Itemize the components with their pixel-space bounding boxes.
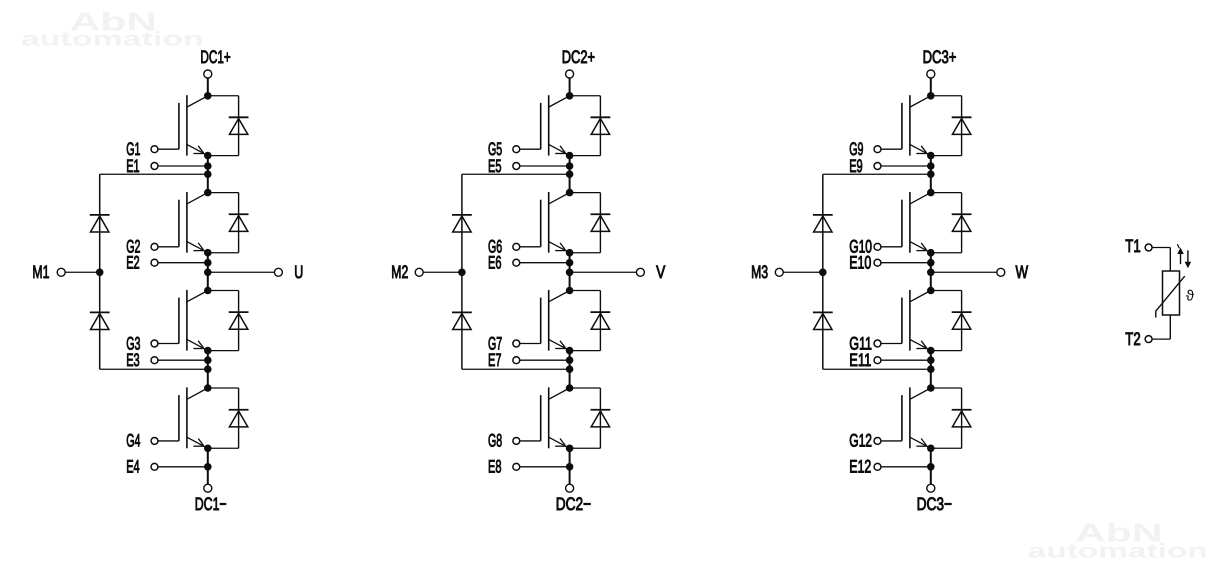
svg-text:M1: M1 <box>32 262 49 282</box>
IGBT Q11 (G11) <box>902 290 931 351</box>
wire gate G8 <box>520 440 541 442</box>
svg-text:DC2−: DC2− <box>556 494 591 514</box>
thermistor characteristic arrows (up/down) <box>1177 244 1191 268</box>
svg-text:automation: automation <box>21 28 204 50</box>
gate terminal G11 <box>849 333 881 353</box>
output terminal V <box>636 262 665 282</box>
node Q3 collector junction <box>204 287 212 295</box>
wire gate G6 <box>520 246 541 248</box>
emitter terminal E6 <box>488 253 520 273</box>
freewheel diode D8 <box>570 388 611 448</box>
svg-text:ϑ: ϑ <box>1186 287 1195 304</box>
node Q8 collector junction <box>566 384 574 392</box>
wire clamp lower row leg 3 <box>823 368 931 370</box>
wire node column segment bottom leg 1 <box>207 448 209 484</box>
wire gate G2 <box>158 246 179 248</box>
freewheel diode D4 <box>208 388 249 448</box>
thermistor temperature symbol &#977; <box>1186 287 1195 304</box>
gate terminal G2 <box>126 237 158 257</box>
freewheel diode D6 <box>570 193 611 253</box>
svg-text:G8: G8 <box>488 431 502 451</box>
emitter terminal E4 <box>126 457 158 477</box>
node E5 junction <box>566 162 574 170</box>
svg-text:E8: E8 <box>488 457 502 477</box>
svg-text:automation: automation <box>1028 541 1208 563</box>
svg-text:DC3+: DC3+ <box>923 47 957 67</box>
gate terminal G6 <box>488 237 520 257</box>
node Q10 collector junction <box>927 189 935 197</box>
svg-text:E11: E11 <box>849 350 871 370</box>
wire E2 to node column <box>158 262 208 264</box>
wire clamp column leg 3 <box>822 174 824 369</box>
node M1 clamp junction <box>96 269 104 277</box>
node Q9 collector junction <box>927 92 935 100</box>
terminal T1 <box>1125 236 1152 256</box>
freewheel diode D9 <box>931 96 972 156</box>
wire node to output U <box>208 271 275 273</box>
emitter terminal E3 <box>126 350 158 370</box>
wire T1 to thermistor <box>1152 248 1170 272</box>
gate terminal G1 <box>126 139 158 159</box>
wire E5 to node column <box>520 165 570 167</box>
node E4 junction <box>204 463 212 471</box>
IGBT Q4 (G4) <box>179 387 208 448</box>
wire gate G10 <box>881 246 902 248</box>
gate terminal G7 <box>488 333 520 353</box>
node clamp lower junction leg 1 <box>204 365 212 373</box>
wire node column segment bottom leg 2 <box>569 448 571 484</box>
thermistor RT1 (NTC) body <box>1156 271 1185 318</box>
svg-text:DC3−: DC3− <box>917 494 952 514</box>
node E8 junction <box>566 463 574 471</box>
svg-text:E5: E5 <box>488 156 502 176</box>
node clamp upper junction leg 3 <box>927 170 935 178</box>
svg-text:E7: E7 <box>488 350 502 370</box>
svg-text:M2: M2 <box>391 262 408 282</box>
terminal M1 <box>32 262 65 282</box>
node E6 junction <box>566 259 574 267</box>
wire M2 to clamp column <box>423 271 462 273</box>
IGBT Q9 (G9) <box>902 95 931 155</box>
svg-text:W: W <box>1016 262 1029 282</box>
emitter terminal E10 <box>849 253 881 273</box>
node E1 junction <box>204 162 212 170</box>
wire node column segment E1-area leg 1 <box>207 156 209 193</box>
wire E8 to node column <box>520 466 570 468</box>
IGBT Q8 (G8) <box>541 387 570 448</box>
output terminal U <box>274 262 303 282</box>
node Q3 emitter junction <box>204 347 212 355</box>
freewheel diode D2 <box>208 193 249 253</box>
gate terminal G10 <box>849 237 881 257</box>
node Q10 emitter junction <box>927 249 935 257</box>
svg-text:E6: E6 <box>488 253 502 273</box>
svg-text:T1: T1 <box>1125 236 1140 256</box>
node clamp lower junction leg 3 <box>927 365 935 373</box>
terminal DC3&#8722; <box>917 484 952 514</box>
wire node column segment mid-area leg 2 <box>569 253 571 291</box>
IGBT Q1 (G1) <box>179 95 208 155</box>
node Q4 emitter junction <box>204 445 212 453</box>
wire node column segment E9-area leg 3 <box>930 156 932 193</box>
wire DC3+ to Q9 collector <box>930 78 932 96</box>
wire E6 to node column <box>520 262 570 264</box>
node Q2 emitter junction <box>204 249 212 257</box>
node Q11 collector junction <box>927 287 935 295</box>
emitter terminal E9 <box>849 156 881 176</box>
wire clamp lower row leg 2 <box>462 368 570 370</box>
node output junction W <box>927 269 935 277</box>
wire E12 to node column <box>881 466 931 468</box>
clamp diode lower leg 3 <box>813 312 833 329</box>
wire M3 to clamp column <box>783 271 823 273</box>
clamp diode lower leg 1 <box>90 312 110 329</box>
wire thermistor to T2 <box>1152 315 1170 339</box>
svg-text:DC1−: DC1− <box>195 494 227 514</box>
wire gate G3 <box>158 343 179 345</box>
clamp diode upper leg 3 <box>813 215 833 232</box>
wire clamp lower row leg 1 <box>100 368 208 370</box>
node Q11 emitter junction <box>927 347 935 355</box>
emitter terminal E11 <box>849 350 881 370</box>
wire E10 to node column <box>881 262 931 264</box>
gate terminal G9 <box>849 139 881 159</box>
terminal T2 <box>1125 329 1152 349</box>
node E9 junction <box>927 162 935 170</box>
svg-text:DC1+: DC1+ <box>200 47 230 67</box>
node Q9 emitter junction <box>927 152 935 160</box>
svg-text:V: V <box>656 262 665 282</box>
IGBT Q7 (G7) <box>541 290 570 351</box>
IGBT Q12 (G12) <box>902 387 931 448</box>
wire clamp upper row leg 3 <box>823 173 931 175</box>
terminal DC1&#8722; <box>195 484 227 514</box>
IGBT Q2 (G2) <box>179 192 208 253</box>
node E12 junction <box>927 463 935 471</box>
node Q1 collector junction <box>204 92 212 100</box>
wire clamp column leg 2 <box>461 174 463 369</box>
wire gate G5 <box>520 148 541 150</box>
svg-text:E12: E12 <box>849 457 871 477</box>
terminal M2 <box>391 262 423 282</box>
terminal DC2+ <box>562 47 595 78</box>
node Q2 collector junction <box>204 189 212 197</box>
gate terminal G8 <box>488 431 520 451</box>
svg-text:E1: E1 <box>126 156 140 176</box>
wire node column segment E3-area leg 1 <box>207 351 209 388</box>
node Q12 emitter junction <box>927 445 935 453</box>
wire clamp upper row leg 2 <box>462 173 570 175</box>
node Q4 collector junction <box>204 384 212 392</box>
node E3 junction <box>204 356 212 364</box>
clamp diode upper leg 2 <box>452 215 472 232</box>
wire E7 to node column <box>520 359 570 361</box>
node M3 clamp junction <box>819 269 827 277</box>
freewheel diode D12 <box>931 388 972 448</box>
svg-text:E4: E4 <box>126 457 140 477</box>
wire node column segment bottom leg 3 <box>930 448 932 484</box>
wire clamp column leg 1 <box>99 174 101 369</box>
svg-text:U: U <box>294 262 303 282</box>
node clamp lower junction leg 2 <box>566 365 574 373</box>
node Q7 collector junction <box>566 287 574 295</box>
node E10 junction <box>927 259 935 267</box>
node Q6 collector junction <box>566 189 574 197</box>
svg-text:E2: E2 <box>126 253 140 273</box>
clamp diode upper leg 1 <box>90 215 110 232</box>
node E2 junction <box>204 259 212 267</box>
emitter terminal E1 <box>126 156 158 176</box>
gate terminal G3 <box>126 333 158 353</box>
wire gate G4 <box>158 440 179 442</box>
emitter terminal E7 <box>488 350 520 370</box>
wire node to output W <box>931 271 997 273</box>
svg-text:DC2+: DC2+ <box>562 47 595 67</box>
node output junction U <box>204 269 212 277</box>
emitter terminal E12 <box>849 457 881 477</box>
wire node column segment mid-area leg 3 <box>930 253 932 291</box>
wire node column segment E11-area leg 3 <box>930 351 932 388</box>
wire node column segment E7-area leg 2 <box>569 351 571 388</box>
IGBT Q5 (G5) <box>541 95 570 155</box>
IGBT Q10 (G10) <box>902 192 931 253</box>
node clamp upper junction leg 2 <box>566 170 574 178</box>
node Q8 emitter junction <box>566 445 574 453</box>
node Q7 emitter junction <box>566 347 574 355</box>
watermark top-left "AbN automation" <box>21 6 204 50</box>
wire gate G1 <box>158 148 179 150</box>
freewheel diode D5 <box>570 96 611 156</box>
gate terminal G5 <box>488 139 520 159</box>
terminal M3 <box>751 262 783 282</box>
svg-text:T2: T2 <box>1125 329 1140 349</box>
node clamp upper junction leg 1 <box>204 170 212 178</box>
wire gate G9 <box>881 148 902 150</box>
svg-text:E9: E9 <box>849 156 863 176</box>
emitter terminal E2 <box>126 253 158 273</box>
output terminal W <box>997 262 1028 282</box>
svg-text:G12: G12 <box>849 431 872 451</box>
wire gate G7 <box>520 343 541 345</box>
wire node column segment mid-area leg 1 <box>207 253 209 291</box>
wire M1 to clamp column <box>65 271 100 273</box>
node output junction V <box>566 269 574 277</box>
clamp diode lower leg 2 <box>452 312 472 329</box>
svg-text:M3: M3 <box>751 262 768 282</box>
node Q1 emitter junction <box>204 152 212 160</box>
terminal DC3+ <box>923 47 957 78</box>
wire E4 to node column <box>158 466 208 468</box>
wire E1 to node column <box>158 165 208 167</box>
gate terminal G4 <box>126 431 158 451</box>
freewheel diode D1 <box>208 96 249 156</box>
emitter terminal E8 <box>488 457 520 477</box>
freewheel diode D3 <box>208 291 249 351</box>
freewheel diode D10 <box>931 193 972 253</box>
watermark bottom-right "AbN automation" <box>1028 518 1208 563</box>
node M2 clamp junction <box>458 269 466 277</box>
wire DC2+ to Q5 collector <box>569 78 571 96</box>
emitter terminal E5 <box>488 156 520 176</box>
wire node column segment E5-area leg 2 <box>569 156 571 193</box>
wire DC1+ to Q1 collector <box>207 78 209 96</box>
wire E3 to node column <box>158 359 208 361</box>
node E11 junction <box>927 356 935 364</box>
node E7 junction <box>566 356 574 364</box>
node Q6 emitter junction <box>566 249 574 257</box>
freewheel diode D7 <box>570 291 611 351</box>
IGBT Q6 (G6) <box>541 192 570 253</box>
freewheel diode D11 <box>931 291 972 351</box>
gate terminal G12 <box>849 431 881 451</box>
wire E11 to node column <box>881 359 931 361</box>
terminal DC2&#8722; <box>556 484 591 514</box>
wire gate G11 <box>881 343 902 345</box>
IGBT Q3 (G3) <box>179 290 208 351</box>
wire gate G12 <box>881 440 902 442</box>
svg-text:E10: E10 <box>849 253 871 273</box>
node Q5 emitter junction <box>566 152 574 160</box>
node Q5 collector junction <box>566 92 574 100</box>
svg-text:G4: G4 <box>126 431 140 451</box>
terminal DC1+ <box>200 47 230 78</box>
wire clamp upper row leg 1 <box>100 173 208 175</box>
wire E9 to node column <box>881 165 931 167</box>
wire node to output V <box>570 271 637 273</box>
node Q12 collector junction <box>927 384 935 392</box>
svg-text:E3: E3 <box>126 350 140 370</box>
